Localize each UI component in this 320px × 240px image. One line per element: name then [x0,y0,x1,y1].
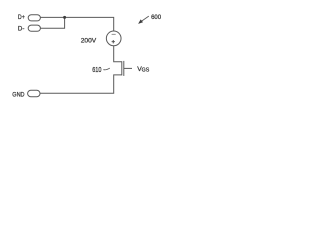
svg-text:D+: D+ [18,14,25,21]
svg-text:600: 600 [151,14,161,21]
svg-text:610: 610 [92,65,101,74]
svg-text:VGS: VGS [137,66,149,74]
svg-text:200V: 200V [81,37,97,44]
svg-text:D-: D- [18,26,25,33]
svg-text:GND: GND [12,92,24,99]
